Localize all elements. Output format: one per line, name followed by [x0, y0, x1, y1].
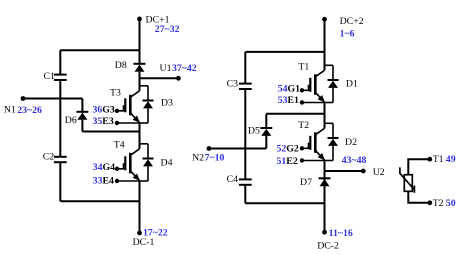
- svg-text:D2: D2: [345, 137, 357, 148]
- svg-text:DC-1: DC-1: [133, 237, 155, 248]
- wire C2 bottom lead: [59, 162, 61, 201]
- wire D6 top lead: [81, 99, 83, 112]
- svg-text:DC-2: DC-2: [317, 241, 339, 252]
- svg-text:DC+2: DC+2: [340, 16, 364, 27]
- wire C4 return to DC-2 bus: [245, 202, 324, 204]
- wire T1 emitter down: [324, 103, 326, 114]
- wire D8 to T3 collector: [139, 72, 141, 91]
- svg-text:N1: N1: [4, 105, 16, 116]
- wire D5 bottom lead: [265, 136, 267, 149]
- wire T2 emitter to DC-2: [324, 161, 326, 233]
- svg-text:C4: C4: [227, 174, 239, 185]
- svg-text:52G2: 52G2: [277, 143, 299, 154]
- terminal N1: [21, 96, 26, 101]
- svg-text:51E2: 51E2: [277, 156, 298, 167]
- transistor T4: [115, 149, 140, 183]
- svg-text:N2: N2: [192, 153, 204, 164]
- svg-text:U1: U1: [160, 63, 172, 74]
- svg-text:43~48: 43~48: [342, 155, 367, 166]
- transistor T3: [115, 91, 140, 125]
- wire T1/T2 midpoint down to T2 collector: [324, 114, 326, 129]
- wire DC+1 bus down to D8: [139, 19, 141, 64]
- svg-text:D1: D1: [346, 79, 358, 90]
- svg-text:54G1: 54G1: [278, 84, 300, 95]
- wire T4 emitter to DC-1: [139, 181, 141, 233]
- wire C3 top lead: [244, 52, 246, 84]
- wire C3 bottom to N2 node to C4: [244, 89, 246, 179]
- svg-text:37~42: 37~42: [172, 63, 197, 74]
- svg-text:D8: D8: [115, 60, 127, 71]
- wire DC+2 bus down to T1 collector: [324, 19, 326, 70]
- transistor T1: [300, 70, 325, 104]
- diode D2: [325, 123, 339, 160]
- thermistor strike line: [400, 173, 415, 190]
- terminal DC-1: [137, 231, 142, 236]
- svg-text:7~10: 7~10: [205, 153, 225, 164]
- capacitor C3: [239, 84, 252, 89]
- diode D4: [140, 144, 154, 181]
- diode D5: [260, 128, 272, 136]
- diode D1: [325, 65, 339, 102]
- wire NTC bottom: [408, 191, 430, 203]
- capacitor C1: [54, 75, 67, 80]
- wire top rail to C3: [245, 51, 324, 53]
- thermistor R(NTC) body: [404, 175, 412, 192]
- terminal N2: [207, 146, 212, 151]
- terminal U1: [176, 76, 181, 81]
- svg-text:C1: C1: [44, 71, 56, 82]
- wire N1 to D6 branch: [23, 98, 82, 100]
- svg-text:34G4: 34G4: [93, 162, 115, 173]
- svg-text:35E3: 35E3: [93, 116, 114, 127]
- wire C1 top lead: [59, 50, 61, 74]
- svg-text:D4: D4: [161, 158, 173, 169]
- diode D7: [319, 178, 331, 186]
- thermistor strike hook top: [399, 167, 401, 174]
- svg-text:D3: D3: [161, 97, 173, 108]
- wire top rail to C1: [60, 49, 139, 51]
- svg-text:50: 50: [446, 198, 456, 209]
- wire midpoint to D5: [266, 113, 324, 115]
- wire T3 emitter to T4 collector: [139, 123, 141, 149]
- svg-text:D5: D5: [248, 125, 260, 136]
- transistor T2: [300, 128, 325, 162]
- svg-text:49: 49: [446, 154, 456, 165]
- terminal U2: [361, 169, 366, 174]
- wire C4 bottom lead: [244, 185, 246, 204]
- terminal DC+2: [322, 17, 327, 22]
- svg-text:53E1: 53E1: [278, 95, 299, 106]
- diode D6: [76, 112, 88, 120]
- svg-text:C2: C2: [43, 151, 55, 162]
- svg-text:D6: D6: [65, 115, 77, 126]
- terminal T1 (NTC): [427, 157, 432, 162]
- svg-text:T2: T2: [298, 120, 309, 131]
- capacitor C2: [54, 157, 67, 162]
- svg-text:U2: U2: [373, 167, 385, 178]
- wire U2 output tap: [325, 170, 364, 172]
- terminal DC+1: [137, 17, 142, 22]
- terminal T2 (NTC): [427, 200, 432, 205]
- svg-text:11~16: 11~16: [329, 228, 353, 239]
- diode D3: [140, 86, 154, 123]
- wire N2 to D5 anode: [209, 148, 266, 150]
- svg-text:33E4: 33E4: [93, 176, 114, 187]
- svg-text:36G3: 36G3: [93, 104, 115, 115]
- capacitor C4: [239, 179, 252, 184]
- svg-text:T3: T3: [110, 87, 121, 98]
- svg-text:T4: T4: [114, 139, 125, 150]
- diode D8: [134, 64, 146, 72]
- svg-text:23~26: 23~26: [17, 105, 42, 116]
- wire D6 to T3/T4 midpoint: [82, 131, 139, 133]
- svg-text:1~6: 1~6: [340, 28, 355, 39]
- svg-text:C3: C3: [227, 79, 239, 90]
- svg-text:T2: T2: [433, 198, 444, 209]
- wire U1 output tap: [140, 77, 179, 79]
- wire C2 return to DC-1 bus: [60, 200, 139, 202]
- svg-text:T1: T1: [433, 154, 444, 165]
- wire D5 top lead: [265, 114, 267, 128]
- thermistor strike hook bottom: [413, 186, 415, 193]
- svg-text:27~32: 27~32: [155, 24, 180, 35]
- svg-text:D7: D7: [300, 177, 312, 188]
- wire D6 bottom lead: [81, 120, 83, 132]
- wire NTC top: [408, 159, 430, 175]
- svg-text:T1: T1: [298, 61, 309, 72]
- terminal DC-2: [322, 230, 327, 235]
- wire C1 bottom to N1 node to C2: [59, 80, 61, 157]
